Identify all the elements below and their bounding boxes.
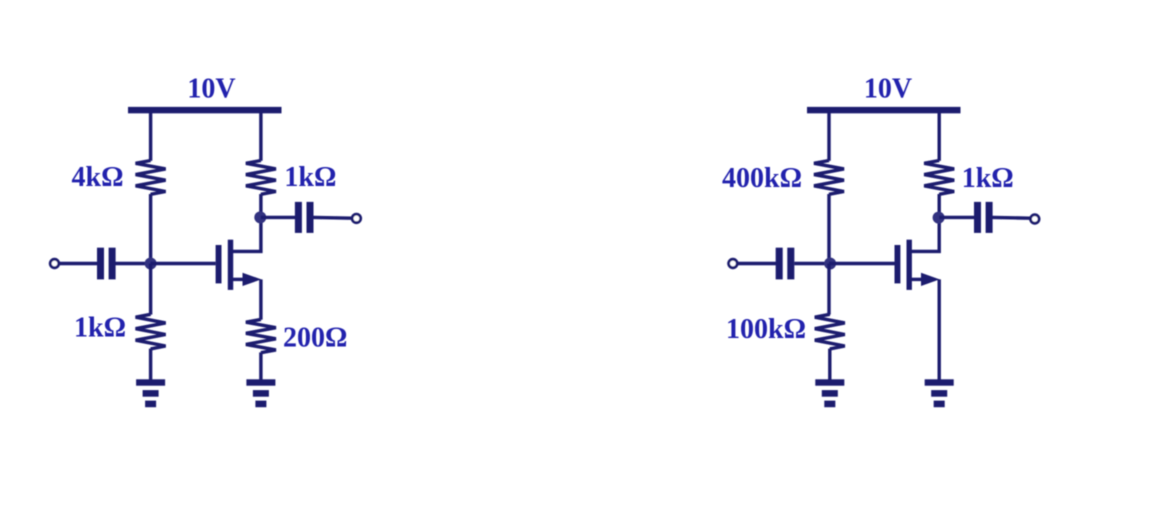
svg-text:1kΩ: 1kΩ (962, 163, 1014, 194)
wire: input port to C3 (737, 262, 776, 265)
svg-text:10V: 10V (864, 74, 912, 105)
wire: rail to R6 top (938, 112, 941, 161)
wire: C4 to output port (992, 216, 1030, 220)
svg-text:10V: 10V (187, 74, 235, 105)
capacitor C2 plates (295, 202, 314, 233)
ground (source, left circuit) (246, 379, 275, 407)
wire: R5 bottom to gate node (827, 194, 830, 264)
wire: rail to R2 top (259, 112, 262, 161)
resistor R3 1k&#937; zigzag (136, 314, 166, 349)
wire: R4 to ground (259, 352, 262, 380)
wire: R7 to ground (828, 349, 831, 381)
wire: drain node to C2 (261, 216, 296, 219)
wire: R3 to ground (149, 349, 152, 381)
resistor R7 100k&#937; zigzag (815, 314, 845, 349)
svg-text:4kΩ: 4kΩ (72, 162, 124, 193)
wire: gate node to MOSFET gate (829, 262, 895, 265)
wire: R6 bottom to drain node (938, 194, 941, 217)
wire: M1 source lead (233, 278, 244, 281)
resistor R6 1k&#937; zigzag (924, 161, 954, 195)
wire: C1 to gate node (115, 262, 150, 265)
gate node dot (right circuit) (824, 258, 836, 270)
wire: rail to R5 top (827, 112, 830, 161)
wire: M2 source lead (912, 278, 923, 281)
gate node dot (left circuit) (145, 258, 157, 270)
MOSFET M1 channel bar (228, 240, 233, 290)
input port (left circuit) (50, 259, 59, 268)
svg-text:100kΩ: 100kΩ (726, 314, 806, 345)
wire: R1 bottom to gate node (149, 194, 152, 264)
wire: input port to C1 (59, 262, 97, 265)
wire: C2 to output port (313, 216, 352, 220)
capacitor C1 plates (97, 248, 116, 280)
MOSFET M1 gate bar (216, 245, 222, 283)
svg-text:1kΩ: 1kΩ (284, 162, 336, 193)
wire: rail to R1 top (149, 112, 152, 161)
wire: M2 drain to drain node (912, 217, 940, 251)
supply rail bar (left circuit) (128, 107, 282, 113)
svg-text:200Ω: 200Ω (283, 323, 347, 354)
resistor R4 200&#937; zigzag (246, 319, 276, 352)
wire: gate node down to R3 1k&#937; (149, 264, 152, 315)
MOSFET M2 gate bar (895, 245, 901, 283)
drain node dot (right circuit) (933, 212, 945, 224)
wire: gate node to MOSFET gate (151, 262, 216, 265)
wire: R2 bottom to drain node (259, 194, 262, 217)
wire: source down to ground (938, 279, 941, 380)
svg-text:400kΩ: 400kΩ (722, 163, 802, 194)
M1 source arrow (243, 273, 262, 286)
output port (left circuit) (352, 214, 361, 223)
input port (right circuit) (729, 259, 738, 268)
drain node dot (left circuit) (254, 211, 266, 223)
svg-text:1kΩ: 1kΩ (74, 312, 126, 343)
capacitor C3 plates (776, 248, 795, 280)
wire: drain node to C4 (939, 216, 975, 219)
wire: gate node down to R7 100k&#937; (827, 264, 830, 315)
capacitor C4 plates (974, 202, 993, 233)
wire: C3 to gate node (794, 262, 829, 265)
ground (R7, right circuit) (815, 379, 844, 407)
resistor R5 400k&#937; zigzag (814, 161, 844, 195)
resistor R2 1k&#937; zigzag (246, 161, 276, 195)
MOSFET M2 channel bar (907, 240, 912, 290)
ground (source, right circuit) (925, 379, 954, 407)
resistor R1 4k&#937; zigzag (136, 161, 166, 195)
wire: M1 drain to drain node (233, 217, 261, 251)
output port (right circuit) (1031, 215, 1040, 224)
supply rail bar (right circuit) (807, 107, 961, 113)
wire: source down to R4 200&#937; (259, 279, 262, 319)
ground (R3, left circuit) (136, 379, 165, 407)
M2 source arrow (921, 273, 940, 286)
